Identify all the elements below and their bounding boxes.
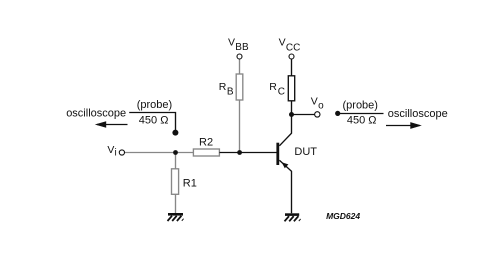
svg-text:450 Ω: 450 Ω [347, 115, 377, 127]
svg-text:V: V [107, 144, 114, 156]
svg-text:o: o [318, 100, 324, 111]
svg-text:oscilloscope: oscilloscope [388, 108, 448, 120]
svg-text:MGD624: MGD624 [326, 211, 360, 221]
svg-text:i: i [115, 147, 117, 158]
svg-text:DUT: DUT [294, 146, 317, 158]
svg-text:R: R [269, 81, 277, 93]
svg-text:CC: CC [286, 42, 300, 53]
svg-text:V: V [279, 37, 286, 49]
svg-text:BB: BB [235, 42, 249, 53]
svg-text:B: B [227, 86, 234, 97]
svg-text:(probe): (probe) [343, 99, 378, 111]
svg-text:R1: R1 [183, 178, 197, 190]
svg-text:V: V [228, 37, 235, 49]
svg-text:450 Ω: 450 Ω [139, 115, 169, 127]
svg-text:oscilloscope: oscilloscope [66, 108, 126, 120]
svg-text:C: C [278, 87, 285, 98]
svg-text:(probe): (probe) [137, 99, 172, 111]
svg-text:V: V [311, 96, 318, 108]
svg-text:R: R [219, 81, 227, 93]
svg-text:R2: R2 [199, 137, 213, 149]
